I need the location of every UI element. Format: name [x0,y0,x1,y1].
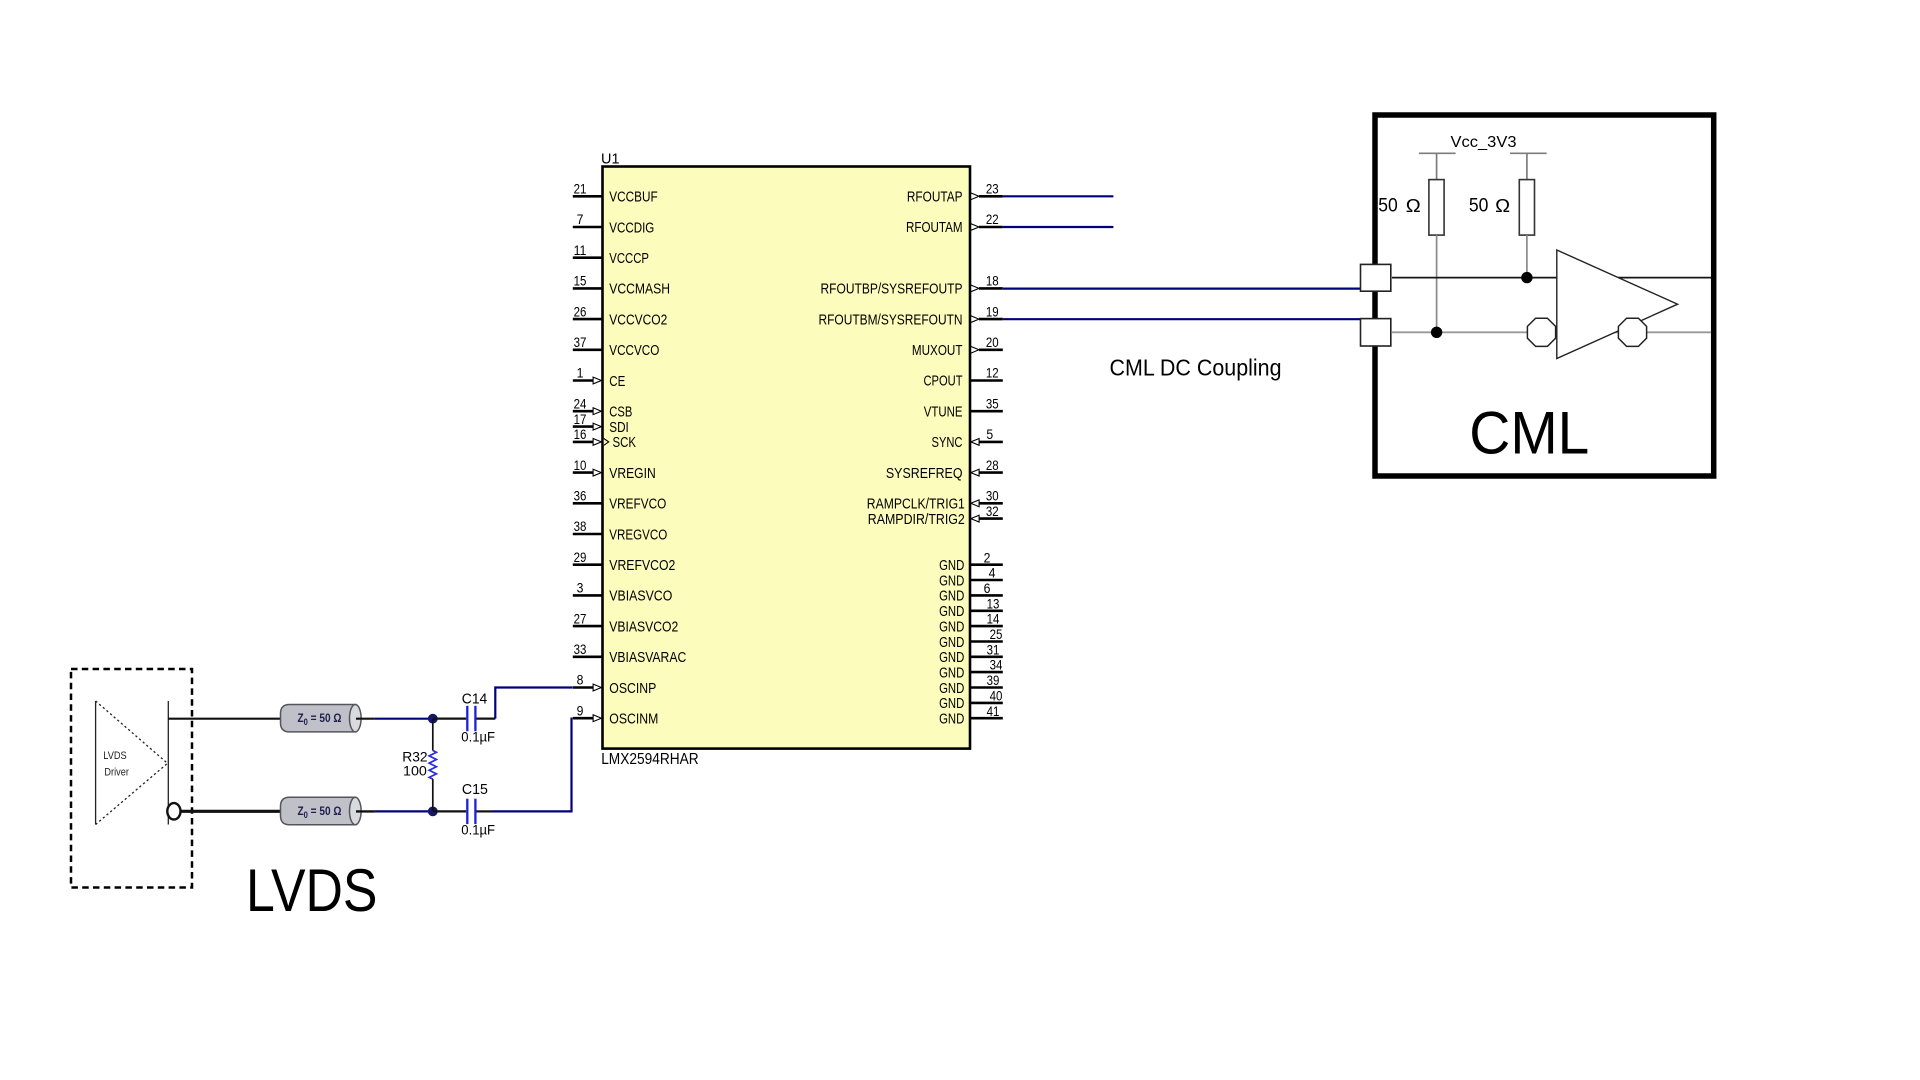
svg-text:7: 7 [577,212,584,227]
svg-text:18: 18 [986,274,999,289]
wire LVDS P output [168,718,280,720]
svg-text:SCK: SCK [613,434,637,451]
pin 34 GND [939,658,1003,682]
pin 24 CSB [573,396,633,420]
pin 33 VBIASVARAC [573,642,687,666]
pin 35 VTUNE [924,396,1003,420]
svg-text:RFOUTAM: RFOUTAM [906,219,963,236]
svg-text:VREGVCO: VREGVCO [609,526,667,543]
LVDS driver output bar [167,701,169,825]
pin 6 GND [939,581,1003,605]
pin 15 VCCMASH [573,274,670,298]
pin 41 GND [939,704,1003,728]
resistor 50 ohm left [1378,180,1444,236]
svg-text:Ω: Ω [1495,195,1510,216]
resistor R32 100 [402,719,436,812]
wire right resistor to upper rail [1526,235,1528,278]
svg-text:RFOUTAP: RFOUTAP [907,189,963,206]
svg-text:25: 25 [990,627,1003,642]
LVDS Driver label [103,750,129,778]
svg-text:VBIASVCO2: VBIASVCO2 [609,618,678,635]
node junction P [428,714,438,724]
pin 28 SYSREFREQ [886,458,1003,482]
svg-text:VCCVCO: VCCVCO [609,342,659,359]
svg-text:21: 21 [574,182,587,197]
pin 27 VBIASVCO2 [573,611,679,635]
pin 30 RAMPCLK/TRIG1 [867,489,1003,513]
pin 31 GND [939,642,1003,666]
svg-text:VCCVCO2: VCCVCO2 [609,311,667,328]
pin 12 CPOUT [924,366,1003,390]
LVDS driver dashed box [71,669,192,888]
pin 2 GND [939,550,1003,574]
pin 16 SCK [573,427,636,451]
svg-text:26: 26 [574,304,587,319]
svg-text:U1: U1 [601,151,620,167]
pin 29 VREFVCO2 [573,550,676,574]
svg-text:29: 29 [574,550,587,565]
power rail symbol right [1510,153,1547,179]
pin 9 OSCINM [573,703,659,727]
svg-text:R32: R32 [402,750,427,765]
pin 22 RFOUTAM [906,212,1003,236]
svg-text:0.1µF: 0.1µF [461,729,495,745]
pin 32 RAMPDIR/TRIG2 [868,504,1003,528]
svg-text:LMX2594RHAR: LMX2594RHAR [601,751,699,768]
svg-text:VCCCP: VCCCP [609,250,649,267]
svg-text:GND: GND [939,711,964,728]
svg-text:VREGIN: VREGIN [609,465,655,482]
svg-text:20: 20 [986,335,999,350]
svg-text:Driver: Driver [104,766,129,778]
capacitor C14 0.1uF [433,691,495,744]
svg-text:5: 5 [986,427,993,442]
svg-text:0.1µF: 0.1µF [461,821,495,837]
svg-text:19: 19 [986,304,999,319]
svg-text:33: 33 [574,642,587,657]
svg-text:17: 17 [574,412,587,427]
wire LVDS N output [181,810,281,813]
transmission line Z0=50ohm (P) [281,705,362,732]
wire CML upper rail [1392,277,1711,279]
svg-text:50: 50 [1378,196,1398,217]
transmission line Z0=50ohm (N) [281,797,362,824]
svg-text:50: 50 [1469,196,1489,217]
svg-text:22: 22 [986,212,999,227]
svg-text:CPOUT: CPOUT [924,373,963,390]
pin 38 VREGVCO [573,519,668,543]
svg-text:6: 6 [984,581,991,596]
svg-text:CE: CE [609,373,625,390]
wire RFOUTAM net [1003,226,1114,228]
buffer triangle [1557,250,1678,359]
svg-text:32: 32 [986,504,999,519]
svg-text:16: 16 [574,427,587,442]
svg-text:8: 8 [577,673,584,688]
pin 1 CE [573,366,626,390]
svg-text:VCCMASH: VCCMASH [609,281,670,298]
svg-text:14: 14 [987,612,1000,627]
svg-text:C15: C15 [462,782,488,798]
svg-text:28: 28 [986,458,999,473]
wire cylinder N to junction [356,810,433,812]
svg-text:Ω: Ω [1406,195,1421,216]
svg-text:3: 3 [577,581,584,596]
svg-text:9: 9 [577,703,584,718]
svg-text:36: 36 [574,489,587,504]
pin 5 SYNC [932,427,1003,451]
pin 40 GND [939,689,1003,713]
svg-text:CML DC Coupling: CML DC Coupling [1110,355,1282,381]
pin 10 VREGIN [573,458,656,482]
node junction N [428,807,438,817]
pin 19 RFOUTBM/SYSREFOUTN [819,304,1003,328]
wire left resistor to lower rail [1436,235,1438,332]
svg-text:13: 13 [987,596,1000,611]
svg-text:SYNC: SYNC [932,434,963,451]
svg-text:41: 41 [987,704,1000,719]
svg-text:Vcc_3V3: Vcc_3V3 [1451,134,1517,151]
pin 39 GND [939,673,1003,697]
pin 11 VCCCP [573,243,649,267]
svg-text:RAMPDIR/TRIG2: RAMPDIR/TRIG2 [868,511,965,528]
pin 8 OSCINP [573,673,657,697]
svg-text:24: 24 [574,396,587,411]
pin 37 VCCVCO [573,335,660,359]
pin 26 VCCVCO2 [573,304,668,328]
svg-text:31: 31 [987,642,1000,657]
svg-text:RFOUTBP/SYSREFOUTP: RFOUTBP/SYSREFOUTP [821,281,963,298]
svg-text:VREFVCO: VREFVCO [609,496,666,513]
svg-text:CML: CML [1469,400,1589,467]
svg-text:RFOUTBM/SYSREFOUTN: RFOUTBM/SYSREFOUTN [819,311,963,328]
pin 4 GND [939,566,1003,590]
pin 23 RFOUTAP [907,182,1003,206]
wire C14 to OSCINP [495,688,572,719]
svg-text:VREFVCO2: VREFVCO2 [609,557,675,574]
svg-text:12: 12 [986,366,999,381]
wire C15 to OSCINM [492,719,573,812]
svg-text:VTUNE: VTUNE [924,403,963,420]
capacitor C15 0.1uF [433,782,495,837]
IC U1 LMX2594RHAR body [603,167,971,749]
svg-text:34: 34 [990,658,1003,673]
svg-text:OSCINM: OSCINM [609,711,658,728]
wire cylinder P to junction [356,718,433,720]
coupling pad upper [1361,264,1391,291]
inversion bubble left [1527,318,1555,346]
LVDS driver triangle [96,701,168,825]
svg-text:1: 1 [577,366,584,381]
svg-text:40: 40 [990,689,1003,704]
power rail symbol left [1419,153,1456,179]
svg-text:C14: C14 [462,691,488,707]
svg-text:30: 30 [986,489,999,504]
svg-text:37: 37 [574,335,587,350]
svg-text:15: 15 [574,274,587,289]
wire RFOUTBM/SYSREFOUTN to CML [1003,318,1362,320]
wire RFOUTAP net [1003,195,1114,197]
pin 25 GND [939,627,1003,651]
svg-text:100: 100 [403,764,427,779]
pin 20 MUXOUT [912,335,1003,359]
svg-text:LVDS: LVDS [103,750,126,762]
svg-text:4: 4 [989,566,996,581]
node junction lower rail [1431,327,1442,338]
pin 3 VBIASVCO [573,581,673,605]
svg-text:2: 2 [984,550,991,565]
svg-text:VBIASVARAC: VBIASVARAC [609,649,686,666]
svg-text:11: 11 [574,243,587,258]
wire RFOUTBP/SYSREFOUTP to CML [1003,288,1362,290]
pin 17 SDI [573,412,629,436]
svg-text:23: 23 [986,182,999,197]
svg-text:27: 27 [574,611,587,626]
pin 7 VCCDIG [573,212,655,236]
CML block box [1375,115,1714,476]
svg-text:LVDS: LVDS [246,857,378,924]
svg-text:38: 38 [574,519,587,534]
svg-text:35: 35 [986,396,999,411]
svg-text:VCCDIG: VCCDIG [609,219,654,236]
pin 36 VREFVCO [573,489,667,513]
inversion bubble right [1618,318,1646,346]
pin 21 VCCBUF [573,182,658,206]
resistor 50 ohm right [1469,180,1535,236]
pin 18 RFOUTBP/SYSREFOUTP [821,274,1003,298]
inversion bubble on LVDS N output [167,803,180,819]
wire CML lower rail [1392,331,1711,333]
svg-text:MUXOUT: MUXOUT [912,342,963,359]
svg-text:OSCINP: OSCINP [609,680,656,697]
pin 13 GND [939,596,1003,620]
svg-text:VBIASVCO: VBIASVCO [609,588,672,605]
coupling pad lower [1361,319,1391,346]
svg-text:VCCBUF: VCCBUF [609,189,657,206]
svg-text:10: 10 [574,458,587,473]
svg-text:SYSREFREQ: SYSREFREQ [886,465,963,482]
svg-text:39: 39 [987,673,1000,688]
pin 14 GND [939,612,1003,636]
node junction upper rail [1521,272,1532,283]
